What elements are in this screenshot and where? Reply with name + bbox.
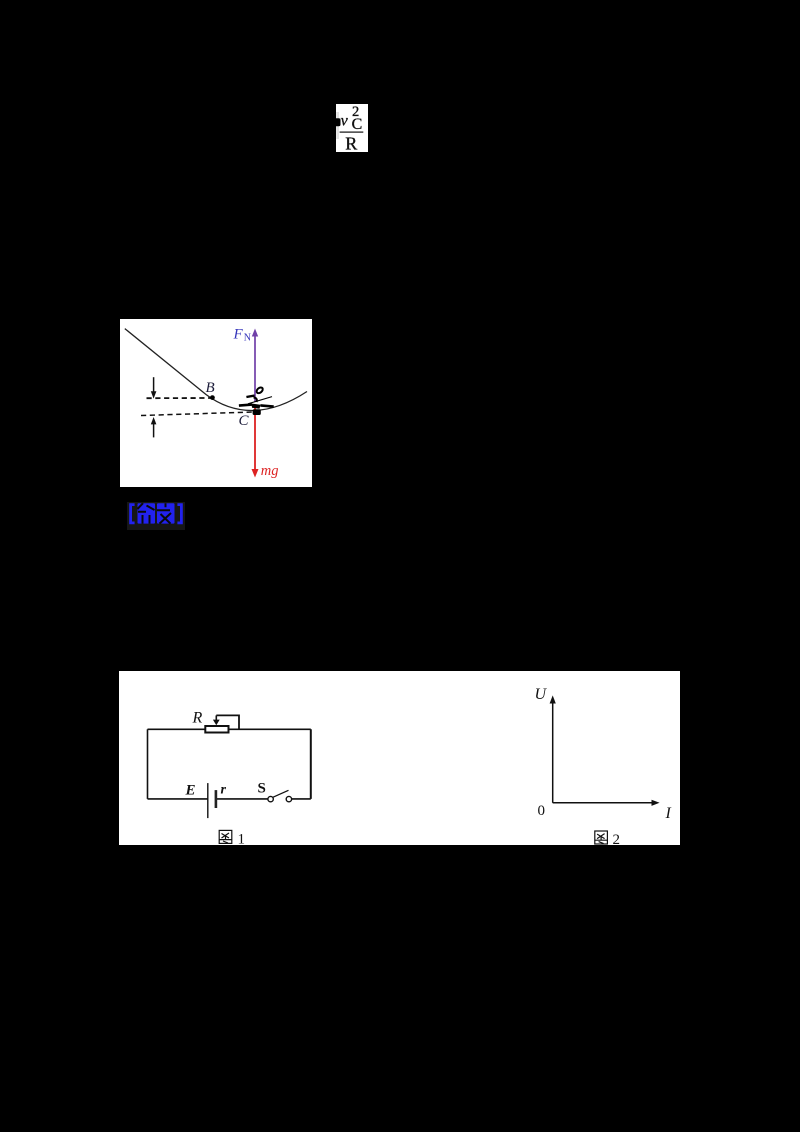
dashed line B level	[147, 397, 212, 399]
svg-text:E: E	[185, 783, 196, 799]
svg-text:r: r	[221, 783, 227, 798]
wire bottom segment c	[292, 798, 311, 800]
normal force FN arrow	[252, 329, 258, 403]
svg-text:0: 0	[538, 803, 546, 819]
rheostat R body	[205, 726, 228, 733]
down arrow h marker	[151, 377, 157, 398]
svg-text:N: N	[244, 332, 251, 343]
up arrow h marker	[151, 417, 157, 437]
figure: curve with forces at C	[120, 319, 312, 487]
rheostat tap bracket	[216, 715, 239, 729]
caption tu 2	[595, 831, 608, 844]
battery long plate	[207, 783, 209, 818]
sled rider sketch	[239, 386, 274, 415]
svg-text:mg: mg	[261, 463, 279, 479]
svg-text:C: C	[239, 413, 250, 429]
circuit outer loop wires	[148, 729, 311, 799]
partial letter m blob	[335, 118, 341, 126]
switch lever	[273, 790, 289, 797]
figure box: circuit and U-I graph	[119, 671, 680, 845]
svg-text:F: F	[233, 326, 244, 342]
svg-text:1: 1	[238, 832, 246, 846]
graph U axis	[550, 695, 556, 802]
svg-text:R: R	[192, 710, 203, 727]
wire top left	[148, 728, 206, 730]
svg-text:2: 2	[613, 832, 621, 845]
rheostat slider arrow	[213, 715, 220, 725]
wire bottom segment a	[148, 798, 208, 800]
point B dot	[210, 395, 215, 400]
wire top right	[229, 728, 311, 730]
svg-text:v: v	[341, 113, 349, 130]
wire right	[310, 729, 312, 799]
formula box m vC^2 / R	[336, 104, 368, 152]
svg-text:R: R	[345, 133, 357, 152]
wire bottom segment b	[216, 798, 268, 800]
light strip	[336, 112, 339, 139]
gravity mg arrow	[252, 407, 259, 478]
svg-text:S: S	[258, 780, 266, 796]
dashed line C level	[141, 412, 253, 416]
slope curve	[125, 329, 307, 411]
caption tu 1	[219, 830, 232, 843]
wire left	[147, 729, 149, 799]
battery short plate	[215, 790, 218, 808]
svg-text:U: U	[535, 686, 548, 703]
blue answer label	[127, 502, 185, 530]
svg-text:C: C	[352, 116, 363, 133]
switch S contacts	[268, 796, 273, 801]
fraction bar	[340, 132, 364, 133]
svg-text:I: I	[665, 805, 672, 822]
svg-text:B: B	[206, 380, 215, 396]
graph I axis	[553, 800, 660, 806]
